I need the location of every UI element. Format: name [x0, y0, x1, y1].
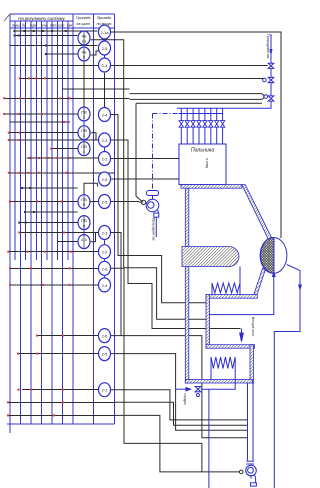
svg-text:шос: шос: [58, 24, 65, 28]
svg-text:Вихідні гази: Вихідні гази: [251, 317, 255, 336]
svg-text:2-5: 2-5: [102, 46, 109, 51]
svg-text:2-5: 2-5: [102, 352, 109, 357]
svg-text:2-4: 2-4: [102, 283, 109, 288]
svg-text:Пальника: Пальника: [191, 148, 214, 154]
svg-text:Прилади: Прилади: [97, 16, 112, 20]
svg-text:Прилади: Прилади: [76, 16, 91, 20]
svg-text:Природний газ: Природний газ: [266, 34, 270, 59]
svg-text:з газу: з газу: [205, 158, 210, 168]
svg-text:2-2: 2-2: [102, 250, 109, 255]
svg-text:сім: сім: [67, 24, 72, 28]
svg-text:2-5: 2-5: [102, 177, 109, 182]
svg-text:2-3: 2-3: [102, 231, 109, 236]
svg-text:На регулюючу систему: На регулюючу систему: [18, 16, 65, 21]
svg-text:2-6: 2-6: [102, 334, 109, 339]
svg-text:перш: перш: [12, 24, 21, 28]
svg-text:2-4: 2-4: [102, 63, 109, 68]
svg-text:2-3: 2-3: [102, 138, 109, 143]
svg-text:з водою: з водою: [183, 393, 187, 405]
svg-text:на щиті: на щиті: [76, 22, 90, 26]
svg-text:пят: пят: [50, 24, 57, 28]
svg-text:2-1а: 2-1а: [100, 30, 109, 35]
svg-text:2-2: 2-2: [102, 388, 109, 393]
svg-text:2-6: 2-6: [102, 266, 109, 271]
svg-text:Природний газ: Природний газ: [152, 218, 156, 241]
svg-text:дв: дв: [22, 24, 26, 28]
svg-text:2-4: 2-4: [102, 113, 109, 118]
svg-text:чтв: чтв: [41, 24, 48, 28]
svg-text:2-5: 2-5: [102, 200, 109, 205]
svg-text:тре: тре: [30, 24, 37, 28]
svg-text:2-2: 2-2: [102, 157, 109, 162]
